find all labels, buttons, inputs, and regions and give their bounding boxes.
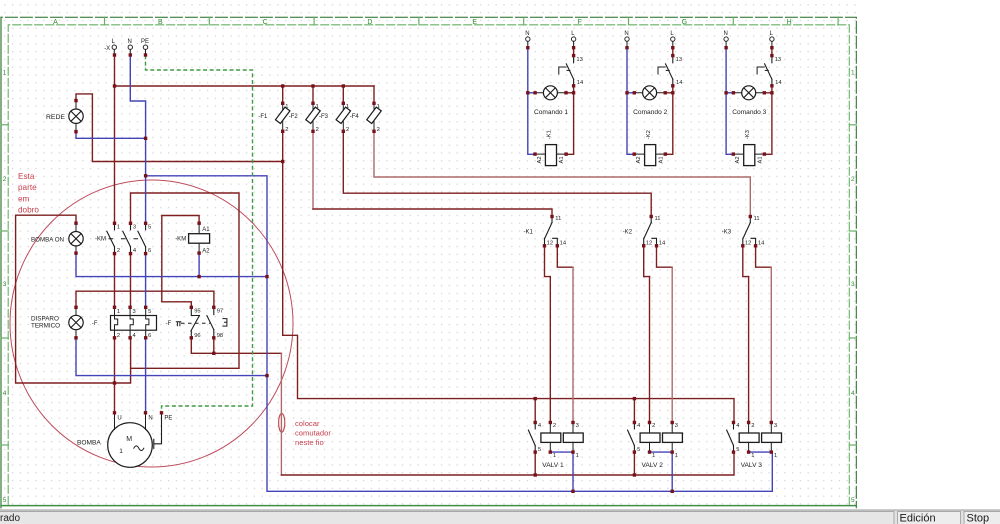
svg-text:3: 3 [133,225,136,231]
svg-text:1: 1 [316,104,319,110]
svg-text:2: 2 [346,127,349,133]
svg-text:neste fio: neste fio [295,438,324,447]
svg-text:Comando 2: Comando 2 [633,109,667,116]
svg-text:-K2: -K2 [623,230,633,236]
svg-text:M: M [126,436,132,443]
svg-text:4: 4 [3,390,7,397]
svg-text:2: 2 [3,176,7,183]
svg-text:5: 5 [736,447,739,453]
svg-text:REDE: REDE [46,114,65,121]
svg-text:-F: -F [92,321,98,327]
svg-text:4: 4 [851,390,855,397]
svg-text:-K3: -K3 [745,130,751,139]
svg-text:1: 1 [346,104,349,110]
svg-text:14: 14 [560,241,567,247]
svg-text:2: 2 [117,333,120,339]
svg-text:parte: parte [18,183,37,192]
svg-text:Comando 3: Comando 3 [732,109,766,116]
svg-text:13: 13 [775,57,781,63]
svg-text:A2: A2 [636,156,642,163]
svg-text:2: 2 [285,127,288,133]
svg-text:A2: A2 [735,156,741,163]
svg-text:-X: -X [104,46,110,52]
svg-text:-K1: -K1 [524,230,534,236]
svg-text:B: B [158,19,163,26]
svg-text:13: 13 [576,57,582,63]
svg-text:comutador: comutador [295,428,331,437]
svg-text:2: 2 [377,127,380,133]
svg-text:14: 14 [758,241,765,247]
svg-text:3: 3 [851,281,855,288]
svg-text:2: 2 [553,423,556,429]
svg-text:3: 3 [576,423,579,429]
svg-text:E: E [472,19,477,26]
svg-text:colocar: colocar [295,419,320,428]
svg-text:Stop: Stop [967,513,990,524]
svg-text:N: N [128,39,132,45]
svg-text:-KM: -KM [95,236,106,242]
svg-text:1: 1 [3,70,7,77]
svg-text:-K1: -K1 [547,130,553,139]
svg-text:2: 2 [652,423,655,429]
svg-text:6: 6 [148,333,151,339]
svg-text:96: 96 [194,333,200,339]
svg-text:A2: A2 [202,249,210,255]
svg-text:1: 1 [117,309,120,315]
svg-text:97: 97 [217,308,223,314]
svg-text:F: F [577,19,581,26]
svg-text:VALV 3: VALV 3 [741,462,763,469]
svg-text:1: 1 [774,453,777,459]
svg-text:1: 1 [851,70,855,77]
svg-text:N: N [724,31,728,37]
svg-text:PE: PE [141,39,149,45]
svg-text:5: 5 [637,447,640,453]
svg-text:5: 5 [148,309,151,315]
svg-text:A1: A1 [202,227,210,233]
svg-text:em: em [18,194,30,203]
svg-text:5: 5 [148,225,151,231]
svg-text:1: 1 [553,453,556,459]
svg-text:A2: A2 [537,156,543,163]
svg-text:12: 12 [646,241,652,247]
svg-text:A1: A1 [658,156,664,163]
svg-text:BOMBA ON: BOMBA ON [31,236,64,243]
svg-text:3: 3 [675,423,678,429]
svg-text:-F: -F [166,321,172,327]
svg-text:95: 95 [194,308,200,314]
svg-text:A: A [53,19,58,26]
svg-text:13: 13 [676,57,682,63]
svg-text:1: 1 [117,225,120,231]
svg-text:Comando 1: Comando 1 [534,109,568,116]
svg-text:G: G [682,19,687,26]
svg-text:1: 1 [285,104,288,110]
svg-text:U: U [117,416,121,422]
svg-text:3: 3 [774,423,777,429]
svg-text:-F1: -F1 [258,114,268,120]
svg-text:VALV 2: VALV 2 [642,462,664,469]
svg-text:-F2: -F2 [289,114,299,120]
svg-text:-K2: -K2 [646,130,652,139]
svg-text:5: 5 [3,497,7,504]
svg-text:BOMBA: BOMBA [77,439,101,446]
svg-text:C: C [263,19,268,26]
svg-text:rado: rado [0,513,20,524]
svg-text:5: 5 [851,497,855,504]
svg-text:TERMICO: TERMICO [31,322,60,329]
svg-text:1: 1 [652,453,655,459]
svg-text:1: 1 [119,448,123,455]
svg-text:PE: PE [164,416,172,422]
svg-text:11: 11 [555,216,561,222]
svg-text:2: 2 [117,248,120,254]
svg-text:dobro: dobro [18,206,39,215]
svg-text:-K3: -K3 [722,230,732,236]
svg-text:VALV 1: VALV 1 [542,462,564,469]
svg-text:A1: A1 [758,156,764,163]
svg-text:11: 11 [754,216,760,222]
svg-text:12: 12 [745,241,751,247]
svg-text:DISPARO: DISPARO [31,315,59,322]
svg-text:H: H [787,19,792,26]
svg-text:12: 12 [547,241,553,247]
svg-text:14: 14 [577,80,584,86]
svg-text:1: 1 [576,453,579,459]
svg-text:3: 3 [133,309,136,315]
svg-text:N: N [624,31,628,37]
svg-text:Esta: Esta [18,172,35,181]
svg-text:14: 14 [676,80,683,86]
svg-text:98: 98 [217,333,223,339]
svg-text:3: 3 [3,281,7,288]
svg-text:1: 1 [751,453,754,459]
svg-text:-KM: -KM [175,236,186,242]
svg-text:Edición: Edición [900,513,936,524]
svg-text:A1: A1 [559,156,565,163]
svg-text:N: N [525,31,529,37]
svg-text:1: 1 [675,453,678,459]
svg-text:2: 2 [751,423,754,429]
svg-text:6: 6 [148,248,151,254]
svg-text:-F4: -F4 [350,114,360,120]
svg-text:-F3: -F3 [319,114,329,120]
svg-text:D: D [367,19,372,26]
svg-text:14: 14 [775,80,782,86]
svg-text:N: N [148,416,152,422]
svg-text:2: 2 [851,176,855,183]
svg-text:14: 14 [659,241,666,247]
svg-text:1: 1 [377,104,380,110]
svg-text:5: 5 [538,447,541,453]
svg-text:2: 2 [316,127,319,133]
svg-text:11: 11 [655,216,661,222]
